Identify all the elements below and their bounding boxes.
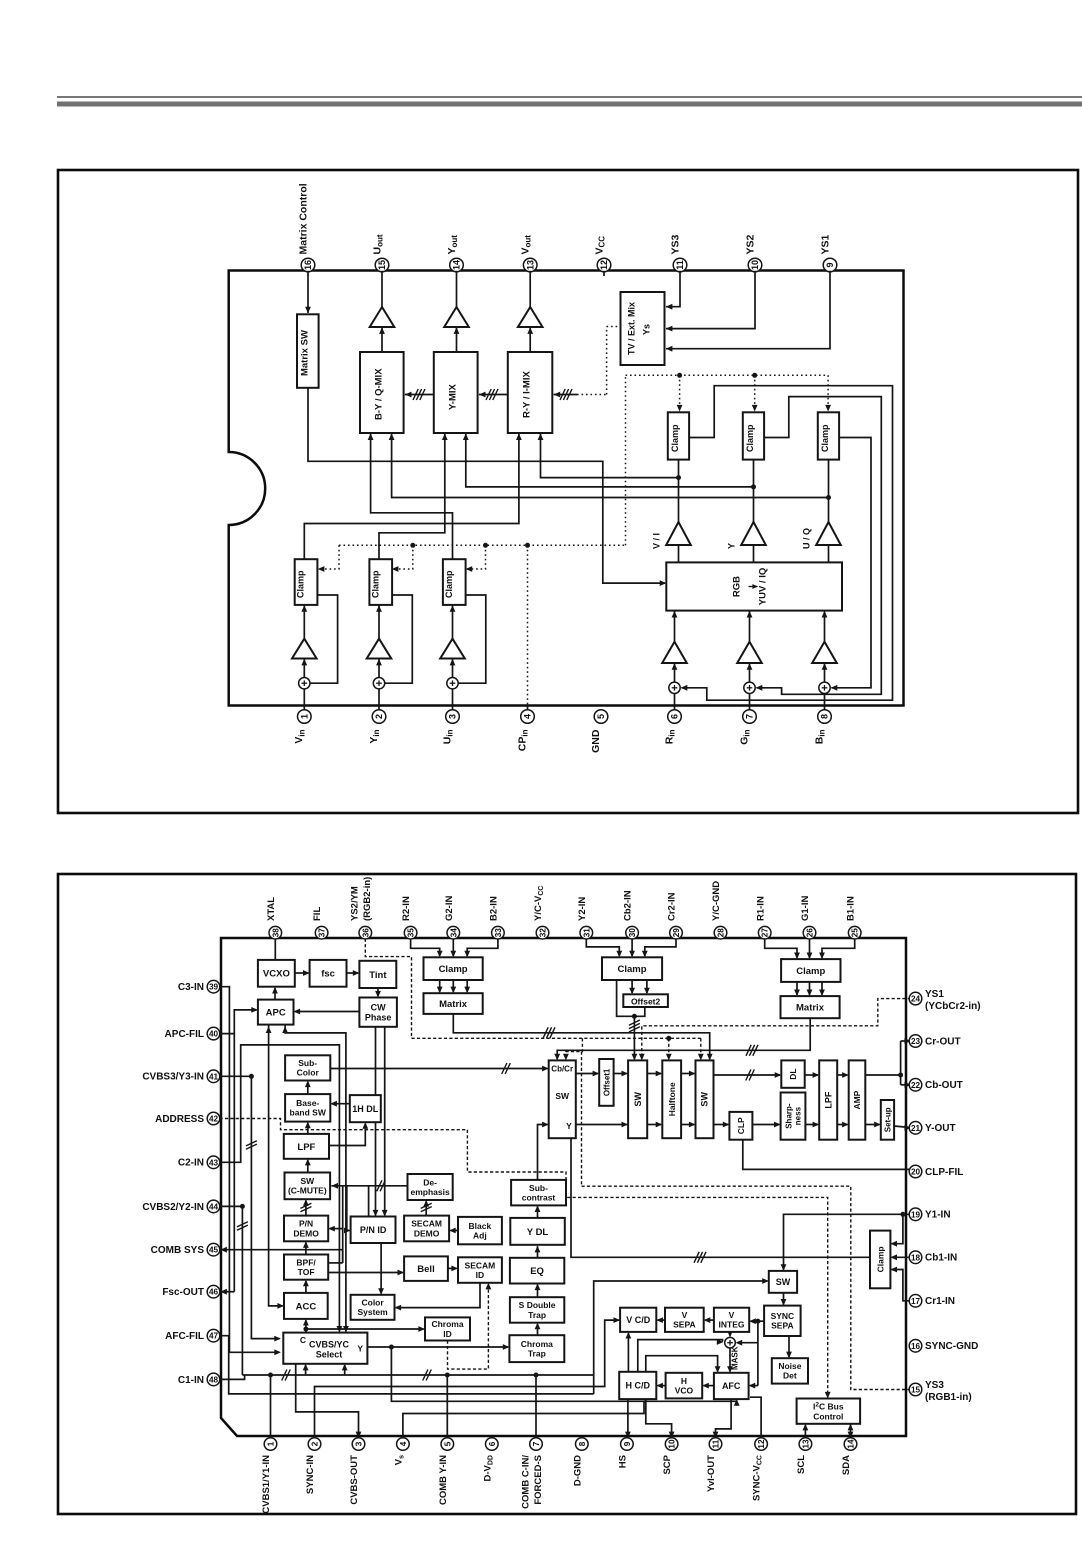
Bell to SECAM ID xyxy=(448,1267,457,1269)
svg-text:40: 40 xyxy=(209,1030,219,1039)
block P/N ID xyxy=(351,1217,396,1244)
block LPF xyxy=(284,1134,329,1159)
bus V to R-Y in2 xyxy=(541,433,679,477)
svg-text:5: 5 xyxy=(443,1441,452,1446)
svg-text:Phase: Phase xyxy=(365,1012,392,1022)
svg-text:SW: SW xyxy=(776,1277,791,1287)
svg-text:B2-IN: B2-IN xyxy=(489,896,500,921)
svg-text:EQ: EQ xyxy=(530,1266,544,1277)
svg-text:26: 26 xyxy=(806,928,815,938)
VCXO to fsc xyxy=(295,972,309,974)
control line SW(C-MUTE)/P-N ID/De-emphasis xyxy=(331,1185,407,1187)
pin 32 xyxy=(536,926,549,939)
IC package outline (DIP-16, rotated) xyxy=(229,271,904,706)
svg-text:Ys: Ys xyxy=(641,324,651,335)
input channel pin 2: sum, amp, clamp xyxy=(378,689,380,711)
svg-text:19: 19 xyxy=(911,1210,921,1219)
svg-text:2: 2 xyxy=(374,714,384,719)
svg-text:(RGB1-in): (RGB1-in) xyxy=(925,1392,972,1403)
pin 27 xyxy=(758,926,771,939)
pin46 Fsc-OUT xyxy=(225,1291,234,1293)
svg-text:Fsc-OUT: Fsc-OUT xyxy=(162,1287,204,1298)
svg-text:21: 21 xyxy=(911,1124,921,1133)
svg-text:Bin: Bin xyxy=(813,729,826,744)
svg-text:11: 11 xyxy=(675,260,685,270)
svg-text:SYNC-IN: SYNC-IN xyxy=(305,1455,316,1494)
pin 6 xyxy=(486,1438,499,1451)
pin 22 xyxy=(909,1079,922,1092)
svg-text:Clamp: Clamp xyxy=(370,570,380,598)
svg-text:32: 32 xyxy=(539,928,548,938)
svg-text:B-Y / Q-MIX: B-Y / Q-MIX xyxy=(373,368,384,420)
long vertical fsc-out/APC rail xyxy=(233,1034,235,1292)
pin 3 xyxy=(352,1438,365,1451)
rise to sync SW xyxy=(594,1281,768,1394)
svg-text:AFC: AFC xyxy=(722,1381,741,1391)
subcontrast to Cb/Cr Y input xyxy=(538,1125,548,1180)
svg-text:FIL: FIL xyxy=(312,907,323,921)
svg-text:4: 4 xyxy=(399,1441,408,1446)
block DL xyxy=(781,1060,804,1087)
pin 28 xyxy=(714,926,727,939)
svg-text:39: 39 xyxy=(209,983,219,992)
svg-text:12: 12 xyxy=(757,1439,766,1449)
amp triangles to output pins 15,14,13 xyxy=(381,327,383,352)
svg-text:38: 38 xyxy=(271,928,280,938)
svg-text:Y DL: Y DL xyxy=(527,1227,549,1238)
pin41 CVBS3 route xyxy=(220,1075,252,1077)
figure frame 2 xyxy=(58,874,1076,1514)
svg-text:Cr1-IN: Cr1-IN xyxy=(925,1296,955,1307)
svg-text:COMB Y-IN: COMB Y-IN xyxy=(438,1455,449,1505)
pin 43 xyxy=(207,1156,220,1169)
svg-text:SW: SW xyxy=(700,1092,710,1107)
pin 13 xyxy=(799,1438,812,1451)
svg-text:band SW: band SW xyxy=(290,1108,327,1118)
right clamps xyxy=(668,412,689,459)
svg-text:Vs: Vs xyxy=(394,1455,406,1465)
svg-text:Sub-: Sub- xyxy=(529,1183,548,1193)
svg-text:37: 37 xyxy=(318,928,327,938)
block Noise Det xyxy=(772,1358,808,1383)
svg-text:Color: Color xyxy=(297,1068,320,1078)
svg-text:C3-IN: C3-IN xyxy=(178,982,204,993)
pin 4 xyxy=(521,710,535,724)
pin 44 xyxy=(207,1200,220,1213)
pin1 pin5 pin7 verticals xyxy=(270,1375,272,1438)
pin 45 xyxy=(207,1243,220,1256)
block R-Y/I-MIX xyxy=(508,352,553,433)
svg-text:8: 8 xyxy=(578,1441,587,1446)
pin 12 xyxy=(597,258,611,272)
pin 46 xyxy=(207,1285,220,1298)
BPF to Bell xyxy=(328,1272,403,1274)
block AFC xyxy=(714,1373,749,1399)
svg-text:VCO: VCO xyxy=(675,1385,694,1395)
svg-text:36: 36 xyxy=(361,928,370,938)
block V SEPA xyxy=(665,1308,704,1332)
H C/D to + xyxy=(638,1340,723,1372)
pin 8 xyxy=(818,710,832,724)
svg-text:4: 4 xyxy=(523,714,533,719)
pin 11 xyxy=(709,1438,722,1451)
AFC to H VCO to H C/D xyxy=(704,1385,714,1387)
svg-text:18: 18 xyxy=(911,1253,921,1262)
block Clamp (R1/G1/B1) xyxy=(781,959,840,982)
pin 14 xyxy=(844,1438,857,1451)
SW to SYNC SEPA xyxy=(783,1293,785,1305)
svg-text:Offset2: Offset2 xyxy=(631,996,661,1006)
dashed rail down to YS3 pin15 xyxy=(581,1052,583,1187)
svg-text:CVBS-OUT: CVBS-OUT xyxy=(349,1455,360,1505)
pin 5 xyxy=(594,710,608,724)
block V INTEG xyxy=(714,1308,749,1332)
pin 12 stub xyxy=(603,271,605,276)
svg-text:Tint: Tint xyxy=(369,970,387,981)
svg-text:ID: ID xyxy=(476,1270,485,1280)
sync sepa branch down xyxy=(757,1321,759,1385)
svg-text:17: 17 xyxy=(911,1297,921,1306)
top row processing chain xyxy=(576,1073,598,1075)
svg-text:31: 31 xyxy=(582,928,591,938)
svg-text:COMB C-IN/: COMB C-IN/ xyxy=(520,1455,531,1509)
svg-text:42: 42 xyxy=(209,1115,219,1124)
svg-text:41: 41 xyxy=(209,1072,219,1081)
svg-text:Y-OUT: Y-OUT xyxy=(925,1123,956,1134)
hatch control lines into MIX blocks xyxy=(405,392,412,398)
pin 3 xyxy=(446,710,460,724)
Tint to CW Phase xyxy=(377,988,379,996)
svg-text:CW: CW xyxy=(371,1002,386,1012)
pin 47 xyxy=(207,1329,220,1342)
svg-text:SW: SW xyxy=(300,1176,315,1186)
svg-text:14: 14 xyxy=(452,260,462,270)
svg-text:SYNC-VCC: SYNC-VCC xyxy=(752,1455,764,1501)
svg-text:SYNC: SYNC xyxy=(771,1311,795,1321)
pin 38 xyxy=(269,926,282,939)
svg-text:CVBS/YC: CVBS/YC xyxy=(309,1340,350,1350)
svg-text:ACC: ACC xyxy=(296,1301,317,1312)
pin 4 xyxy=(397,1438,410,1451)
svg-text:BPF/: BPF/ xyxy=(296,1257,316,1267)
dashed: pin24 YS1 control xyxy=(642,999,911,1060)
pin 19 xyxy=(909,1208,922,1221)
block TV/Ext Mix Ys xyxy=(621,292,665,365)
fsc to Tint xyxy=(347,972,359,974)
block SYNC SEPA xyxy=(764,1306,801,1336)
pin 2 xyxy=(308,1438,321,1451)
select Y output to chroma trap xyxy=(367,1346,508,1348)
svg-text:Uout: Uout xyxy=(371,234,384,254)
clamp output feedback: ch Y to Gin xyxy=(757,397,882,695)
svg-text:LPF: LPF xyxy=(823,1091,833,1109)
block Cb/Cr SW Y xyxy=(549,1060,576,1138)
svg-text:Y1-IN: Y1-IN xyxy=(925,1210,951,1221)
svg-text:G2-IN: G2-IN xyxy=(444,896,455,921)
clamp to V-I amp wire xyxy=(753,460,755,522)
pin 36 xyxy=(359,926,372,939)
svg-text:TV / Ext. Mix: TV / Ext. Mix xyxy=(626,302,636,355)
svg-text:S Double: S Double xyxy=(519,1300,556,1310)
pin 6 xyxy=(668,710,682,724)
svg-text:(RGB2-in): (RGB2-in) xyxy=(362,877,373,921)
block V C/D xyxy=(620,1308,656,1332)
block SECAM ID xyxy=(458,1257,502,1283)
svg-text:Y/C-VCC: Y/C-VCC xyxy=(533,886,545,921)
svg-text:Sharp-: Sharp- xyxy=(784,1103,793,1129)
pin45 COMB SYS xyxy=(225,1249,343,1251)
svg-text:25: 25 xyxy=(851,928,860,938)
svg-text:24: 24 xyxy=(911,995,921,1004)
pins 13,14 I2C xyxy=(804,1425,806,1438)
svg-text:33: 33 xyxy=(494,928,503,938)
svg-text:B1-IN: B1-IN xyxy=(845,896,856,921)
svg-text:YvI-OUT: YvI-OUT xyxy=(706,1455,717,1492)
svg-text:Matrix Control: Matrix Control xyxy=(297,183,309,254)
block Matrix (1) xyxy=(781,996,840,1018)
svg-text:Clamp: Clamp xyxy=(796,966,825,977)
svg-text:Adj: Adj xyxy=(473,1230,487,1240)
pin38 to VCXO xyxy=(274,939,276,960)
svg-text:CLP-FIL: CLP-FIL xyxy=(925,1167,963,1178)
page top double rule xyxy=(57,96,1082,98)
pin 7 xyxy=(530,1438,543,1451)
svg-text:YUV / IQ: YUV / IQ xyxy=(758,568,769,605)
block SW (1) xyxy=(628,1060,647,1138)
H C/D aux to AFC top xyxy=(646,1356,718,1372)
svg-text:AMP: AMP xyxy=(852,1090,862,1109)
svg-text:(C-MUTE): (C-MUTE) xyxy=(288,1186,327,1196)
select bottom to pin3 xyxy=(296,1364,359,1437)
pin 15 xyxy=(909,1383,922,1396)
svg-text:TOF: TOF xyxy=(298,1267,315,1277)
svg-text:Trap: Trap xyxy=(528,1349,546,1359)
svg-text:Clamp: Clamp xyxy=(670,424,680,452)
svg-text:SCP: SCP xyxy=(662,1454,673,1474)
pin 12 xyxy=(755,1438,768,1451)
svg-text:C: C xyxy=(300,1335,306,1345)
svg-text:SW: SW xyxy=(633,1092,643,1107)
svg-text:CVBS2/Y2-IN: CVBS2/Y2-IN xyxy=(142,1202,204,1213)
pin2 SYNC-IN to V C/D xyxy=(315,1320,619,1438)
block CW Phase xyxy=(359,998,397,1027)
svg-text:CVBS3/Y3-IN: CVBS3/Y3-IN xyxy=(142,1072,204,1083)
block Sub-contrast xyxy=(511,1180,566,1206)
clamp output feedback: ch U to Bin xyxy=(832,438,872,688)
clamp bypass + offset2 output node xyxy=(617,980,635,1016)
clamp-v output bus to Cb/Cr SW xyxy=(571,1138,870,1257)
pin 48 xyxy=(207,1373,220,1386)
svg-text:RGB: RGB xyxy=(732,576,743,597)
svg-text:MASK: MASK xyxy=(730,1346,739,1370)
pin 25 xyxy=(848,926,861,939)
pin39 C3-IN route to select xyxy=(220,987,280,1353)
svg-text:47: 47 xyxy=(209,1332,219,1341)
svg-text:Clamp: Clamp xyxy=(820,424,830,452)
svg-text:YS1: YS1 xyxy=(819,234,831,254)
block Base-band SW xyxy=(285,1094,330,1122)
matrix-R output to Cb/Cr SW xyxy=(557,1018,810,1059)
block EQ xyxy=(510,1258,564,1284)
clamp to V-I amp wire xyxy=(828,460,830,522)
svg-text:SCL: SCL xyxy=(796,1455,807,1474)
svg-text:H: H xyxy=(681,1376,687,1386)
select to ACC + chroma ID line xyxy=(305,1320,307,1332)
svg-text:48: 48 xyxy=(209,1375,219,1384)
bus U to B-Y in2 xyxy=(392,433,829,497)
svg-text:Y/C-GND: Y/C-GND xyxy=(711,881,722,921)
svg-text:HS: HS xyxy=(618,1455,629,1468)
SYNC SEPA to Noise Det xyxy=(788,1336,790,1357)
pin 16 xyxy=(301,258,315,272)
block 1H DL xyxy=(350,1095,381,1122)
amp triangle xyxy=(444,307,469,327)
svg-text:V / I: V / I xyxy=(652,533,662,549)
svg-text:Y-MIX: Y-MIX xyxy=(447,383,458,410)
block BPF/TOF xyxy=(284,1255,328,1280)
svg-text:Cb-OUT: Cb-OUT xyxy=(925,1080,963,1091)
svg-text:YS2/YM: YS2/YM xyxy=(350,886,361,921)
svg-text:Gin: Gin xyxy=(738,729,751,744)
svg-text:Vout: Vout xyxy=(519,235,532,255)
svg-text:XTAL: XTAL xyxy=(266,897,277,921)
pin 15 xyxy=(375,258,389,272)
block I2C Bus Control xyxy=(797,1399,861,1424)
pin 41 xyxy=(207,1070,220,1083)
pin 1 xyxy=(264,1438,277,1451)
svg-text:SEPA: SEPA xyxy=(673,1320,696,1330)
svg-text:Cr2-IN: Cr2-IN xyxy=(667,892,678,921)
svg-text:Uin: Uin xyxy=(441,729,454,744)
AMP out branch to pins 23,22 xyxy=(865,1074,900,1076)
svg-text:AFC-FIL: AFC-FIL xyxy=(165,1331,204,1342)
clamp output feedback: ch V to Rin xyxy=(682,386,893,701)
svg-text:D-GND: D-GND xyxy=(572,1455,583,1486)
svg-text:16: 16 xyxy=(911,1342,921,1351)
svg-text:System: System xyxy=(357,1307,388,1317)
P/N ID to Color System xyxy=(380,1243,382,1294)
block De-emphasis xyxy=(408,1174,453,1200)
svg-text:Matrix: Matrix xyxy=(439,999,468,1010)
svg-text:44: 44 xyxy=(209,1202,219,1211)
block Color System xyxy=(351,1295,395,1320)
pin 19 Y1-IN to SW xyxy=(784,1214,912,1269)
svg-text:P/N: P/N xyxy=(299,1219,313,1229)
APC to VCXO xyxy=(274,988,276,1000)
svg-text:C2-IN: C2-IN xyxy=(178,1158,204,1169)
svg-text:2: 2 xyxy=(311,1441,320,1446)
block H C/D xyxy=(619,1372,656,1399)
svg-text:APC-FIL: APC-FIL xyxy=(165,1029,204,1040)
bottom row processing chain xyxy=(576,1124,627,1126)
svg-text:5: 5 xyxy=(596,714,606,719)
block Clamp (Y2/Cb2/Cr2) xyxy=(602,957,662,980)
svg-text:Noise: Noise xyxy=(778,1361,801,1371)
amp triangle xyxy=(518,307,543,327)
svg-text:3: 3 xyxy=(448,714,458,719)
clamp box xyxy=(295,559,318,605)
block Y-MIX xyxy=(434,352,478,433)
block fsc xyxy=(310,960,347,987)
H C/D to V C/D xyxy=(627,1333,629,1372)
svg-text:C1-IN: C1-IN xyxy=(178,1375,204,1386)
svg-text:SECAM: SECAM xyxy=(465,1260,496,1270)
pin 18 xyxy=(909,1251,922,1264)
pins 31,30,29 into mid clamp xyxy=(586,939,619,956)
block CLP xyxy=(729,1112,752,1140)
svg-text:27: 27 xyxy=(761,928,770,938)
block Set-up xyxy=(881,1100,894,1140)
svg-text:De-: De- xyxy=(423,1177,437,1187)
svg-text:Clamp: Clamp xyxy=(745,424,755,452)
feedback loop xyxy=(310,595,338,683)
svg-text:14: 14 xyxy=(847,1439,856,1449)
svg-text:29: 29 xyxy=(672,928,681,938)
IC outline (48-pin) xyxy=(221,938,906,1436)
pin 37 xyxy=(315,926,328,939)
block VCXO xyxy=(258,960,295,987)
pin 11 xyxy=(673,258,687,272)
block Sub-Color xyxy=(285,1055,330,1080)
block Matrix SW xyxy=(297,314,319,388)
svg-text:fsc: fsc xyxy=(321,969,335,980)
CW Phase to APC xyxy=(295,1011,360,1013)
svg-text:15: 15 xyxy=(377,260,387,270)
pin 10 xyxy=(665,1438,678,1451)
SECAM ID to Color System xyxy=(396,1283,480,1308)
pin 16 xyxy=(909,1340,922,1353)
svg-text:Clamp: Clamp xyxy=(444,570,454,598)
pin 21 xyxy=(909,1122,922,1135)
bus: clamp3(Uin) to B-Y/Q-MIX in1 xyxy=(371,433,453,559)
CW Phase outputs down to P/N ID xyxy=(375,1027,377,1215)
pin 17 xyxy=(909,1295,922,1308)
pin 13 xyxy=(523,258,537,272)
pin 10 xyxy=(748,258,762,272)
svg-text:CVBS1/Y1-IN: CVBS1/Y1-IN xyxy=(261,1455,272,1514)
pin 26 xyxy=(803,926,816,939)
wire pin16 to Matrix SW xyxy=(307,271,309,313)
svg-text:H C/D: H C/D xyxy=(626,1381,651,1391)
svg-text:1: 1 xyxy=(267,1441,276,1446)
svg-text:G1-IN: G1-IN xyxy=(800,896,811,921)
Set-up to pin 21 xyxy=(894,1126,910,1128)
svg-text:(YCbCr2-in): (YCbCr2-in) xyxy=(925,1001,981,1012)
svg-text:6: 6 xyxy=(670,714,680,719)
svg-text:SEPA: SEPA xyxy=(771,1321,794,1331)
pin 35 xyxy=(404,926,417,939)
pin 29 xyxy=(670,926,683,939)
dotted link to TV/Ext Mix xyxy=(606,327,608,395)
svg-text:SW: SW xyxy=(555,1091,570,1101)
svg-text:YS3: YS3 xyxy=(925,1380,944,1391)
sync chain horizontals xyxy=(759,1320,764,1322)
svg-text:9: 9 xyxy=(825,262,835,267)
pin 9 xyxy=(621,1438,634,1451)
pin 23 xyxy=(909,1035,922,1048)
pin 33 xyxy=(492,926,505,939)
block Matrix (2) xyxy=(424,993,483,1014)
1H DL to Base-band SW xyxy=(332,1103,350,1105)
svg-text:20: 20 xyxy=(911,1168,921,1177)
block B-Y/Q-MIX xyxy=(360,352,404,433)
block Bell xyxy=(404,1256,448,1281)
svg-text:Offset1: Offset1 xyxy=(602,1068,611,1096)
pin 14 xyxy=(450,258,464,272)
svg-text:Bell: Bell xyxy=(417,1264,434,1275)
clamp to V-I amp wire xyxy=(678,460,680,522)
V/I Y U/Q amp triangles xyxy=(666,522,691,545)
